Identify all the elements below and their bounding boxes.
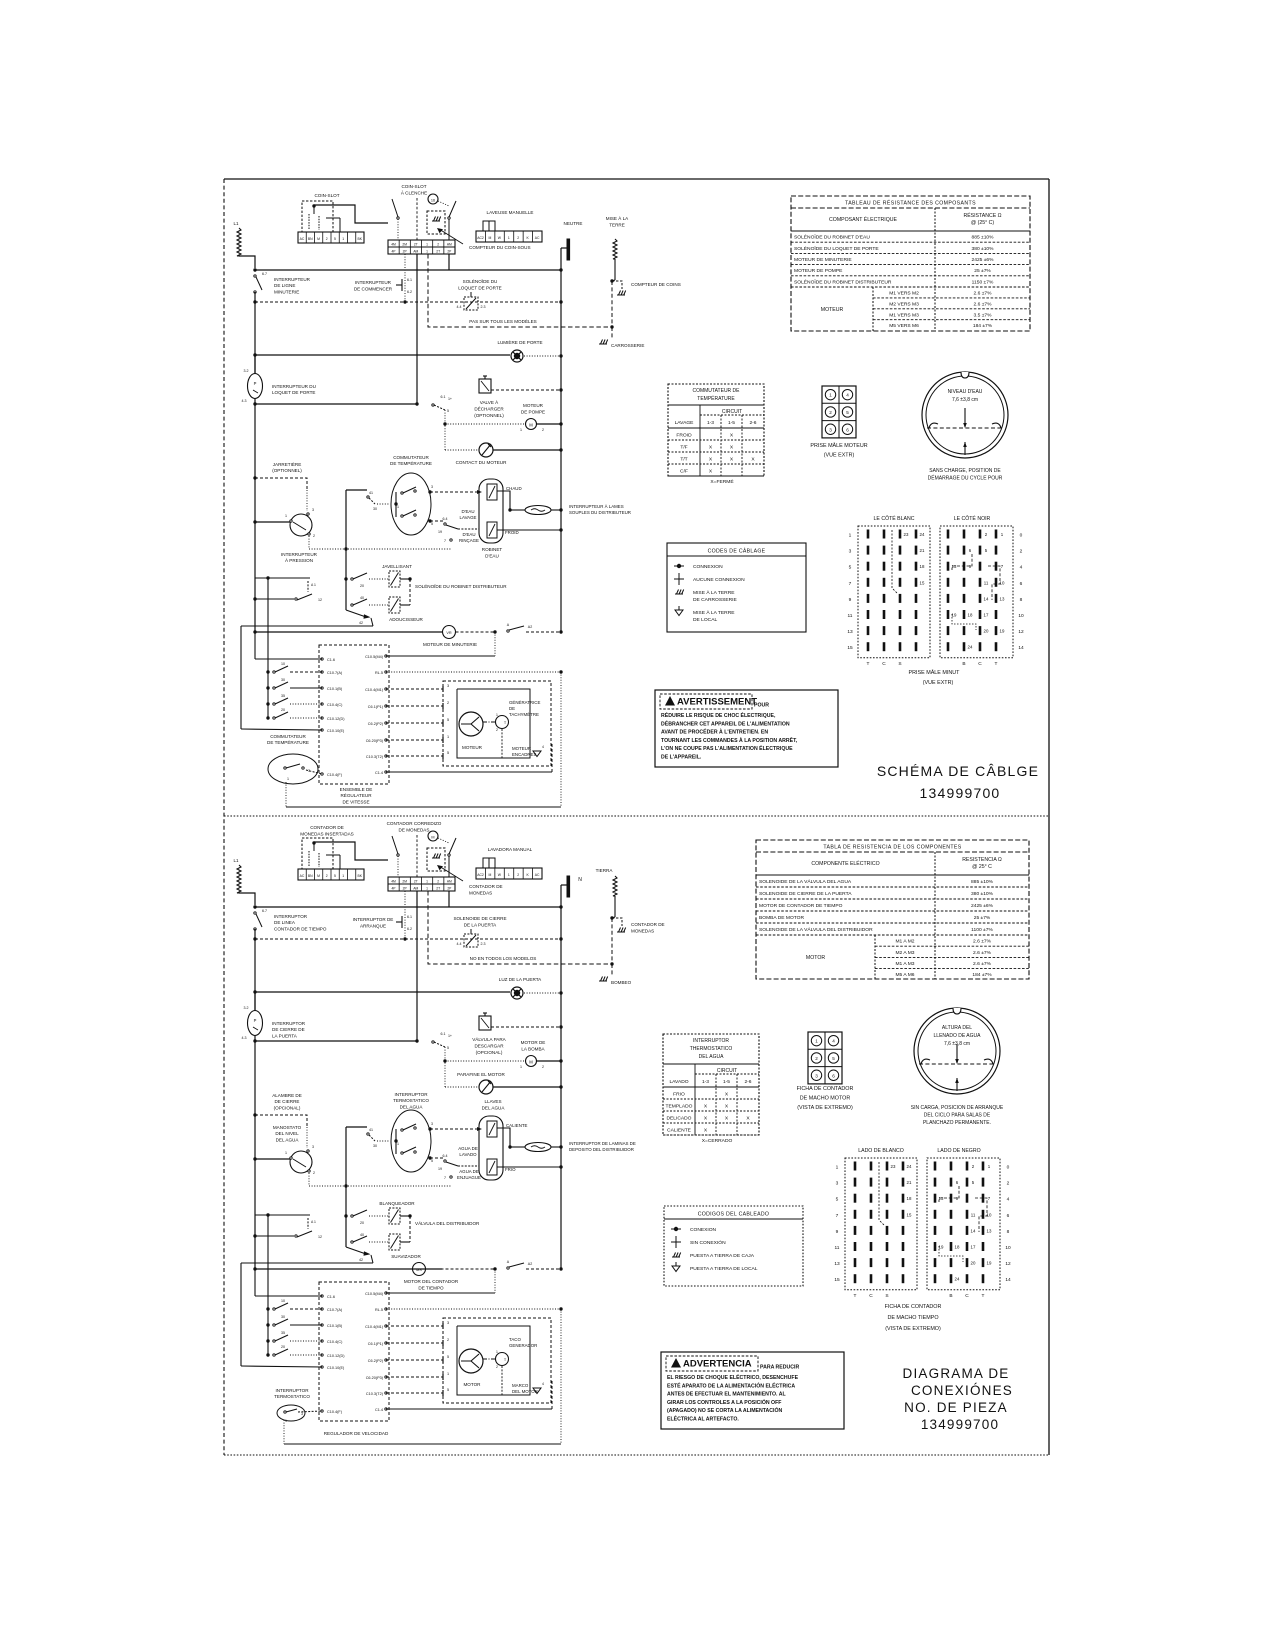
wire A-1 branch (bottom) bbox=[255, 1214, 310, 1216]
switch coin-slot right blade (bottom) bbox=[449, 838, 456, 854]
node contact-bus (bottom) bbox=[559, 1085, 562, 1088]
svg-text:C: C bbox=[965, 1293, 969, 1299]
lower commutator internals (bottom) bbox=[284, 1411, 286, 1413]
wire dashed col (bottom) bbox=[416, 835, 418, 877]
wire right bus (bottom) bbox=[560, 907, 562, 1269]
svg-text:DE MACHO MOTOR: DE MACHO MOTOR bbox=[800, 1096, 851, 1102]
node timer bus right (top) bbox=[559, 630, 562, 633]
svg-text:2: 2 bbox=[517, 873, 519, 877]
svg-text:AC: AC bbox=[535, 873, 540, 877]
svg-text:14: 14 bbox=[1018, 645, 1024, 651]
wire C1.4 riser (bottom) bbox=[551, 1381, 553, 1409]
node temp3 (top) bbox=[428, 490, 431, 493]
wire timer bus (bottom) bbox=[255, 1268, 442, 1270]
svg-text:24: 24 bbox=[920, 532, 925, 537]
svg-text:B: B bbox=[949, 1293, 952, 1299]
wire far left col (top) bbox=[240, 626, 242, 729]
svg-text:INTERRUPTOR DE LAMINAS DE: INTERRUPTOR DE LAMINAS DE bbox=[569, 1141, 636, 1146]
wire door light line (top) bbox=[255, 354, 510, 356]
svg-text:SOUPLES DU DISTRIBUTEUR: SOUPLES DU DISTRIBUTEUR bbox=[569, 510, 631, 515]
node dashed-right (bottom) bbox=[559, 937, 562, 940]
svg-text:AM: AM bbox=[447, 880, 452, 884]
svg-text:C10.7(A): C10.7(A) bbox=[327, 671, 343, 675]
wire switch feed col (top) bbox=[267, 578, 269, 718]
svg-text:T: T bbox=[982, 1293, 985, 1299]
svg-text:TIERRA: TIERRA bbox=[596, 868, 614, 873]
speed regulator box (top) bbox=[319, 645, 389, 784]
wire 41 column (top) bbox=[345, 490, 347, 610]
svg-text:MOTEUR: MOTEUR bbox=[523, 403, 544, 408]
node jarretiere (bottom) bbox=[253, 1113, 256, 1116]
svg-text:6.2: 6.2 bbox=[407, 290, 412, 294]
switch 42 arrow (bottom) bbox=[346, 1247, 366, 1254]
svg-text:CONTADOR DE: CONTADOR DE bbox=[310, 825, 344, 830]
border frame bottom (dotted) bbox=[224, 1454, 1049, 1456]
pressure switch (bottom) bbox=[290, 1151, 312, 1173]
svg-text:2: 2 bbox=[313, 1171, 315, 1175]
svg-text:1150 ±7%: 1150 ±7% bbox=[972, 279, 994, 285]
svg-text:CONTACT DU MOTEUR: CONTACT DU MOTEUR bbox=[456, 460, 508, 465]
svg-text:C10.4(C): C10.4(C) bbox=[327, 1340, 343, 1344]
svg-text:1+: 1+ bbox=[448, 397, 452, 401]
wire ground to pas-sur (bottom) bbox=[611, 918, 613, 964]
wire dashed control line (top) bbox=[255, 301, 561, 303]
svg-text:AC: AC bbox=[300, 874, 305, 878]
svg-text:AC: AC bbox=[300, 237, 305, 241]
wire main hot bus (top) bbox=[255, 269, 561, 271]
svg-text:LA PUERTA: LA PUERTA bbox=[272, 1033, 298, 1038]
svg-text:7: 7 bbox=[444, 539, 446, 543]
svg-text:B: B bbox=[962, 661, 965, 667]
svg-text:POUR: POUR bbox=[754, 703, 769, 709]
speed switches 10/30/35/20 (top) bbox=[266, 670, 269, 673]
coin-slot box (bottom) bbox=[302, 838, 333, 869]
wire E terminal (bottom) bbox=[241, 1366, 322, 1367]
svg-text:20: 20 bbox=[281, 1345, 285, 1349]
svg-text:C6.2(P2): C6.2(P2) bbox=[368, 722, 384, 726]
node timer bus right (bottom) bbox=[559, 1267, 562, 1270]
svg-text:30: 30 bbox=[373, 507, 377, 511]
lower commutator ellipse (bottom) bbox=[277, 1405, 305, 1421]
wire motor lead 1@740 (bottom) bbox=[386, 1376, 443, 1378]
node pressure feed (top) bbox=[253, 520, 256, 523]
svg-text:2-6: 2-6 bbox=[744, 1079, 751, 1085]
svg-text:4.4: 4.4 bbox=[457, 942, 462, 946]
svg-text:18: 18 bbox=[955, 1245, 960, 1250]
svg-text:6: 6 bbox=[1007, 1213, 1010, 1219]
node timer mid (top) bbox=[493, 630, 496, 633]
switch 12 (top) bbox=[255, 598, 294, 600]
svg-text:7: 7 bbox=[849, 581, 852, 587]
valve solenoid hot (top) bbox=[487, 484, 497, 500]
svg-text:LAVADO: LAVADO bbox=[669, 1079, 688, 1085]
svg-text:5: 5 bbox=[431, 1159, 433, 1163]
svg-text:M1 A M3: M1 A M3 bbox=[895, 961, 914, 967]
svg-text:5: 5 bbox=[447, 409, 449, 413]
svg-text:42: 42 bbox=[359, 1258, 363, 1262]
svg-text:LOQUET DE PORTE: LOQUET DE PORTE bbox=[458, 286, 501, 291]
svg-text:4.4: 4.4 bbox=[457, 305, 462, 309]
svg-text:MOTEUR: MOTEUR bbox=[512, 746, 531, 751]
border frame top bbox=[224, 178, 1049, 180]
svg-text:DEL AGUA: DEL AGUA bbox=[400, 1104, 424, 1109]
node dashed-mid (bottom) bbox=[403, 937, 406, 940]
wire jarretiere dashed (bottom) bbox=[255, 1115, 307, 1127]
svg-text:PARA REDUCIR: PARA REDUCIR bbox=[760, 1365, 799, 1371]
svg-text:À CLENCHE: À CLENCHE bbox=[401, 190, 427, 196]
svg-text:C10.4(C): C10.4(C) bbox=[327, 703, 343, 707]
wire motor lead 3@689 (bottom) bbox=[386, 1325, 443, 1327]
svg-text:A 1: A 1 bbox=[311, 1220, 316, 1224]
svg-text:5: 5 bbox=[836, 1197, 839, 1203]
svg-text:SOLÉNOÏDE DU ROBINET DISTRIBUT: SOLÉNOÏDE DU ROBINET DISTRIBUTEUR bbox=[794, 278, 892, 285]
chassis ground carrosserie (bottom) bbox=[599, 980, 607, 982]
contact 7 rinse (bottom) bbox=[450, 1176, 452, 1178]
wire contact dotted (top) bbox=[445, 449, 479, 451]
svg-text:M: M bbox=[431, 836, 434, 840]
svg-text:24: 24 bbox=[968, 645, 973, 650]
wire left bus lower (top) bbox=[254, 404, 256, 632]
svg-text:1-3: 1-3 bbox=[707, 420, 714, 426]
water level gauge (bottom) bbox=[914, 1008, 1000, 1094]
svg-text:GENERADOR: GENERADOR bbox=[509, 1343, 537, 1348]
svg-text:CONEXION: CONEXION bbox=[690, 1227, 717, 1233]
svg-text:1: 1 bbox=[447, 1372, 449, 1376]
node distributor (bottom) bbox=[408, 1214, 411, 1217]
speed box right terminals (top) bbox=[385, 655, 387, 657]
svg-text:EL RIESGO DE CHOQUE ELÉCTRICO,: EL RIESGO DE CHOQUE ELÉCTRICO, DESENCHUF… bbox=[667, 1373, 799, 1381]
svg-text:20: 20 bbox=[360, 1221, 364, 1225]
svg-text:LAVAGE: LAVAGE bbox=[675, 420, 695, 426]
svg-text:DE CIERRE DE: DE CIERRE DE bbox=[272, 1027, 305, 1032]
svg-text:C10.3(T2): C10.3(T2) bbox=[366, 1392, 384, 1396]
svg-text:AC2: AC2 bbox=[477, 873, 484, 877]
node drain col (bottom) bbox=[443, 1059, 446, 1062]
svg-text:184 ±7%: 184 ±7% bbox=[972, 972, 992, 978]
switch line blade (top) bbox=[254, 275, 256, 277]
wire dotted col (bottom) bbox=[397, 856, 399, 877]
wire drain col dotted (top) bbox=[444, 410, 446, 450]
svg-text:MANOSTATO: MANOSTATO bbox=[273, 1125, 302, 1130]
bleach solenoid (bottom) bbox=[389, 1208, 400, 1224]
svg-text:RL.5: RL.5 bbox=[375, 671, 383, 675]
svg-text:LADO DE NEGRO: LADO DE NEGRO bbox=[937, 1148, 980, 1154]
svg-text:DE MONEDAS: DE MONEDAS bbox=[399, 828, 430, 833]
half divider (dotted) bbox=[224, 815, 1049, 817]
wire motor lead 5@723 (top) bbox=[386, 722, 443, 724]
svg-text:M: M bbox=[489, 873, 492, 877]
wire valve hot out (bottom) bbox=[497, 1128, 510, 1147]
svg-text:184 ±7%: 184 ±7% bbox=[973, 323, 993, 329]
svg-text:1: 1 bbox=[397, 505, 399, 509]
svg-text:5: 5 bbox=[447, 1388, 449, 1392]
wire right blade down (top) bbox=[448, 219, 450, 240]
svg-text:1: 1 bbox=[520, 1065, 522, 1069]
water valve body (bottom) bbox=[479, 1116, 503, 1180]
speed box left terminals (bottom) bbox=[321, 1295, 323, 1297]
svg-text:VALVE À: VALVE À bbox=[480, 399, 499, 405]
flow restrictor (top) bbox=[510, 509, 525, 511]
wire 42 to left (top) bbox=[241, 625, 373, 627]
ground zigzag (top) bbox=[613, 239, 617, 259]
wire M4 (bottom) bbox=[386, 1292, 495, 1294]
svg-text:CONNEXION: CONNEXION bbox=[693, 564, 723, 570]
svg-text:3: 3 bbox=[836, 1181, 839, 1187]
wire F terminal dashed (bottom) bbox=[298, 1411, 322, 1412]
svg-text:M: M bbox=[489, 236, 492, 240]
svg-text:MS: MS bbox=[416, 1268, 422, 1272]
svg-text:MOTOR DE CONTADOR DE TIEMPO: MOTOR DE CONTADOR DE TIEMPO bbox=[759, 903, 843, 909]
svg-text:1-3: 1-3 bbox=[702, 1079, 709, 1085]
svg-text:20: 20 bbox=[281, 708, 285, 712]
node drain-bus (bottom) bbox=[559, 1025, 562, 1028]
svg-text:LUZ DE LA PUERTA: LUZ DE LA PUERTA bbox=[499, 977, 542, 982]
svg-text:DE LOCAL: DE LOCAL bbox=[693, 617, 717, 623]
svg-text:DEL AGUA: DEL AGUA bbox=[482, 1106, 506, 1111]
wire temp3 dashed to valve (top) bbox=[430, 491, 479, 493]
svg-text:SOLENOIDE DE LA VÁLVULA DEL AG: SOLENOIDE DE LA VÁLVULA DEL AGUA bbox=[759, 878, 852, 885]
svg-text:TEMPLADO: TEMPLADO bbox=[666, 1104, 693, 1110]
svg-text:MISE À LA TERRE: MISE À LA TERRE bbox=[693, 589, 735, 596]
wire main hot bus (bottom) bbox=[255, 906, 561, 908]
wire C1.4 (top) bbox=[386, 771, 552, 773]
svg-text:LE CÔTÉ NOIR: LE CÔTÉ NOIR bbox=[954, 515, 991, 522]
motor circle (top) bbox=[459, 712, 483, 736]
svg-text:MINUTERIE: MINUTERIE bbox=[274, 289, 299, 294]
wire motor lead 5@756 (bottom) bbox=[386, 1392, 443, 1394]
svg-text:CODIGOS DEL CABLEADO: CODIGOS DEL CABLEADO bbox=[698, 1212, 770, 1218]
wire left bus to 659 (top) bbox=[254, 632, 256, 659]
node temp5 (bottom) bbox=[428, 1156, 431, 1159]
svg-text:1: 1 bbox=[287, 777, 289, 781]
svg-text:11: 11 bbox=[984, 580, 989, 585]
svg-text:12: 12 bbox=[1005, 1261, 1011, 1267]
svg-text:DE LINEA: DE LINEA bbox=[274, 920, 296, 925]
wire ground to pas-sur (top) bbox=[611, 281, 613, 327]
svg-text:LOQUET DE PORTE: LOQUET DE PORTE bbox=[272, 390, 315, 395]
svg-text:PUESTA A TIERRA DE CAJA: PUESTA A TIERRA DE CAJA bbox=[690, 1253, 755, 1259]
pump motor M (bottom) bbox=[526, 1056, 537, 1067]
svg-text:C10.5(M4): C10.5(M4) bbox=[365, 655, 384, 659]
svg-text:COMMUTATEUR: COMMUTATEUR bbox=[270, 734, 306, 739]
svg-text:M5 A M6: M5 A M6 bbox=[895, 972, 914, 978]
svg-text:L1: L1 bbox=[233, 221, 239, 226]
node RL5 (bottom) bbox=[559, 1307, 562, 1310]
svg-text:12: 12 bbox=[1018, 629, 1024, 635]
svg-text:1: 1 bbox=[426, 243, 428, 247]
temp commutator internals (bottom) bbox=[395, 1129, 397, 1154]
svg-text:6: 6 bbox=[846, 427, 849, 432]
lower commutator ellipse (top) bbox=[268, 754, 318, 784]
svg-text:10: 10 bbox=[281, 1299, 285, 1303]
svg-text:1: 1 bbox=[496, 1350, 498, 1354]
svg-text:M: M bbox=[529, 423, 533, 428]
svg-text:(OPTIONNEL): (OPTIONNEL) bbox=[474, 413, 504, 418]
motor inner frame (top) bbox=[457, 689, 530, 758]
svg-text:C10.10(E): C10.10(E) bbox=[327, 1366, 345, 1370]
wire coin-slot to strip (top) bbox=[314, 205, 388, 223]
wire pump dotted (bottom) bbox=[445, 1060, 525, 1062]
svg-text:MOTEUR DE MINUTERIE: MOTEUR DE MINUTERIE bbox=[794, 257, 852, 263]
wire RL5 dotted (top) bbox=[386, 671, 561, 673]
svg-text:2: 2 bbox=[542, 428, 544, 432]
wire left bus upper (top) bbox=[254, 292, 256, 374]
svg-text:NO. DE PIEZA: NO. DE PIEZA bbox=[904, 1400, 1008, 1415]
svg-text:T: T bbox=[854, 1293, 857, 1299]
node light-right (bottom) bbox=[559, 991, 562, 994]
svg-text:DIAGRAMA DE: DIAGRAMA DE bbox=[903, 1366, 1010, 1381]
timer motor circle 16 (top) bbox=[428, 194, 438, 204]
svg-text:MOTOR: MOTOR bbox=[463, 1382, 481, 1387]
svg-text:3: 3 bbox=[447, 684, 449, 688]
svg-text:30: 30 bbox=[373, 1144, 377, 1148]
svg-text:1: 1 bbox=[836, 1165, 839, 1171]
svg-text:!: ! bbox=[668, 701, 670, 707]
wire strip col down (bottom) bbox=[416, 891, 418, 1041]
svg-text:VÁLVULA PARA: VÁLVULA PARA bbox=[472, 1036, 506, 1042]
wire temp3 dashed to valve (bottom) bbox=[430, 1128, 479, 1130]
svg-text:AGUA DE: AGUA DE bbox=[459, 1169, 479, 1174]
lower commutator internals (top) bbox=[284, 767, 286, 769]
svg-text:DEL NIVEL: DEL NIVEL bbox=[275, 1131, 299, 1136]
tach generator circle (top) bbox=[496, 716, 509, 729]
svg-text:C6.20(P3): C6.20(P3) bbox=[366, 739, 384, 743]
svg-text:INTERRUPTOR: INTERRUPTOR bbox=[693, 1038, 729, 1044]
wire F terminal dashed (top) bbox=[306, 770, 322, 774]
svg-text:2: 2 bbox=[1020, 549, 1023, 555]
svg-text:CODES DE CÂBLAGE: CODES DE CÂBLAGE bbox=[708, 548, 766, 555]
svg-text:3: 3 bbox=[431, 1122, 433, 1126]
svg-text:2.6 ±7%: 2.6 ±7% bbox=[973, 950, 992, 956]
inductor L1 (top) bbox=[237, 228, 241, 256]
earth ground motor (top) bbox=[533, 751, 541, 757]
svg-text:MONEDAS: MONEDAS bbox=[631, 929, 654, 934]
timer motor VR (top) bbox=[443, 626, 456, 639]
svg-text:30: 30 bbox=[281, 678, 285, 682]
svg-text:4M: 4M bbox=[391, 880, 396, 884]
svg-text:(OPCIONAL): (OPCIONAL) bbox=[476, 1050, 503, 1055]
node dashed-right (top) bbox=[559, 300, 562, 303]
wire valve cold out (top) bbox=[497, 529, 514, 531]
motor plug diagram (bottom) bbox=[808, 1032, 842, 1084]
wire coin-slot inner (top) bbox=[313, 205, 315, 214]
svg-text:MOTOR: MOTOR bbox=[806, 955, 825, 961]
svg-text:1: 1 bbox=[447, 735, 449, 739]
svg-text:3: 3 bbox=[829, 427, 832, 432]
wire motor lead 5@756 (top) bbox=[386, 755, 443, 757]
wire motor lead 2@706 (bottom) bbox=[386, 1342, 443, 1344]
terminal strip manual (bottom) bbox=[476, 868, 542, 879]
svg-text:(VISTA DE EXTREMO): (VISTA DE EXTREMO) bbox=[885, 1326, 941, 1332]
svg-text:C10.12(D): C10.12(D) bbox=[327, 717, 345, 721]
svg-text:MOTOR DEL CONTADOR: MOTOR DEL CONTADOR bbox=[404, 1279, 459, 1284]
svg-text:REGULADOR DE VELOCIDAD: REGULADOR DE VELOCIDAD bbox=[324, 1431, 389, 1436]
wire far left col (bottom) bbox=[240, 1263, 242, 1366]
pump motor M (top) bbox=[526, 419, 537, 430]
svg-text:MONEDAS: MONEDAS bbox=[469, 891, 492, 896]
svg-text:18: 18 bbox=[907, 1196, 912, 1201]
svg-text:C10.3(T2): C10.3(T2) bbox=[366, 755, 384, 759]
svg-text:A 1: A 1 bbox=[311, 583, 316, 587]
main terminal strip (top) bbox=[388, 240, 455, 254]
svg-text:SOLENOIDE DE CIERRE: SOLENOIDE DE CIERRE bbox=[453, 916, 506, 921]
node coin-slot (top) bbox=[312, 204, 315, 207]
wire pressure feed (top) bbox=[255, 521, 290, 523]
wire lamp to bus dotted (top) bbox=[524, 355, 561, 357]
svg-text:À PRESSION: À PRESSION bbox=[285, 557, 313, 563]
svg-text:LADO DE BLANCO: LADO DE BLANCO bbox=[858, 1148, 904, 1154]
svg-text:(APAGADO) NO SE CORTA LA ALIME: (APAGADO) NO SE CORTA LA ALIMENTACIÓN bbox=[667, 1406, 783, 1414]
inductor L1 (bottom) bbox=[237, 865, 241, 893]
svg-text:0: 0 bbox=[1007, 1165, 1010, 1171]
svg-text:M1 A M2: M1 A M2 bbox=[895, 939, 914, 945]
svg-text:C1.6: C1.6 bbox=[327, 658, 335, 662]
wire C1.6 feed (bottom) bbox=[255, 1295, 322, 1297]
svg-text:C: C bbox=[978, 661, 982, 667]
wire P to center (top) bbox=[254, 398, 256, 404]
svg-text:18: 18 bbox=[968, 613, 973, 618]
switch 6.4 wash (bottom) bbox=[444, 1160, 446, 1162]
water level gauge (top) bbox=[922, 372, 1008, 458]
node temp in (top) bbox=[394, 502, 397, 505]
svg-text:PRISE MÂLE MOTEUR: PRISE MÂLE MOTEUR bbox=[810, 442, 867, 449]
svg-text:T: T bbox=[995, 661, 998, 667]
svg-text:CONTADOR DE: CONTADOR DE bbox=[631, 922, 665, 927]
node restrictor bus (top) bbox=[559, 508, 562, 511]
svg-text:15: 15 bbox=[920, 580, 925, 585]
svg-text:2: 2 bbox=[326, 237, 328, 241]
resistance table (bottom) bbox=[756, 840, 1029, 979]
svg-text:GÉNÉRATRICE: GÉNÉRATRICE bbox=[509, 700, 540, 705]
wire timer dashes (top) bbox=[456, 631, 496, 633]
svg-text:CONEXIÓNES: CONEXIÓNES bbox=[911, 1383, 1013, 1398]
svg-text:23: 23 bbox=[891, 1164, 896, 1169]
wire softener out (bottom) bbox=[400, 1241, 410, 1243]
svg-text:5: 5 bbox=[832, 1056, 835, 1061]
wire C1.4 riser (top) bbox=[551, 744, 553, 772]
svg-text:NEUTRE: NEUTRE bbox=[564, 221, 583, 226]
terminal strip coin-slot (bottom) bbox=[298, 869, 364, 880]
svg-text:X=CERRADO: X=CERRADO bbox=[702, 1138, 733, 1144]
node pump-bus (top) bbox=[559, 422, 562, 425]
svg-text:DESCARGAR: DESCARGAR bbox=[474, 1044, 504, 1049]
svg-text:2: 2 bbox=[815, 1056, 818, 1061]
svg-text:DEL CICLO PARA SALAS DE: DEL CICLO PARA SALAS DE bbox=[924, 1113, 991, 1119]
svg-text:COMPONENTE ELÉCTRICO: COMPONENTE ELÉCTRICO bbox=[811, 860, 879, 867]
ground zigzag (bottom) bbox=[613, 876, 617, 896]
svg-text:10: 10 bbox=[1005, 1245, 1011, 1251]
svg-text:DE VITESSE: DE VITESSE bbox=[342, 799, 369, 804]
svg-text:BK: BK bbox=[357, 874, 362, 878]
wire motor tach dashdot (bottom) bbox=[483, 1358, 495, 1360]
wire pump to bus (bottom) bbox=[537, 1060, 562, 1062]
wire drain col dotted (bottom) bbox=[444, 1047, 446, 1087]
svg-text:ADVERTENCIA: ADVERTENCIA bbox=[683, 1359, 752, 1370]
wire distributor col (top) bbox=[409, 579, 411, 605]
node valve join (bottom) bbox=[508, 1145, 511, 1148]
node pressure cross (bottom) bbox=[344, 1184, 347, 1187]
svg-text:2.6 ±7%: 2.6 ±7% bbox=[973, 939, 992, 945]
chassis ground counter (bottom) bbox=[617, 931, 625, 933]
svg-text:8: 8 bbox=[1020, 597, 1023, 603]
wire motor lead 3@689 (top) bbox=[386, 688, 443, 690]
svg-text:C6.1(P1): C6.1(P1) bbox=[368, 1342, 384, 1346]
wire door light line (bottom) bbox=[255, 991, 510, 993]
svg-text:SOLENOIDE DE LA VÁLVULA DEL DI: SOLENOIDE DE LA VÁLVULA DEL DISTRIBUIDOR bbox=[759, 926, 873, 933]
wire jarretiere dotted (bottom) bbox=[306, 1127, 308, 1148]
node P line (bottom) bbox=[253, 1039, 256, 1042]
svg-text:134999700: 134999700 bbox=[921, 1417, 999, 1432]
